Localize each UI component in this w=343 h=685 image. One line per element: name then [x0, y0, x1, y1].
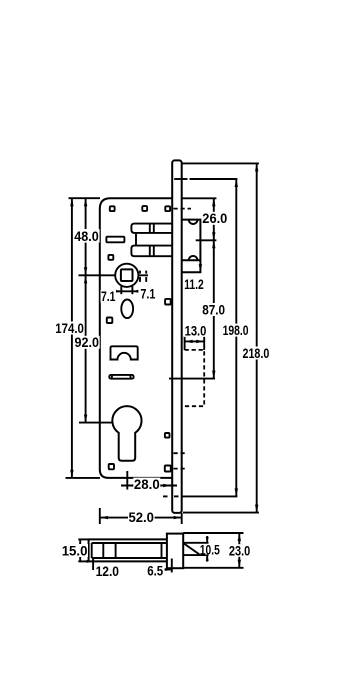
svg-text:87.0: 87.0 — [202, 301, 225, 317]
svg-text:52.0: 52.0 — [128, 509, 154, 525]
svg-text:15.0: 15.0 — [62, 542, 88, 558]
svg-text:7.1: 7.1 — [140, 286, 155, 302]
svg-text:23.0: 23.0 — [229, 543, 251, 559]
svg-text:198.0: 198.0 — [223, 322, 249, 338]
svg-text:26.0: 26.0 — [202, 210, 227, 226]
svg-text:13.0: 13.0 — [185, 322, 207, 338]
svg-text:28.0: 28.0 — [134, 476, 160, 492]
svg-text:7.1: 7.1 — [101, 288, 116, 304]
svg-text:12.0: 12.0 — [96, 563, 120, 579]
svg-text:11.2: 11.2 — [184, 276, 204, 292]
svg-text:218.0: 218.0 — [243, 345, 270, 361]
svg-text:92.0: 92.0 — [75, 334, 100, 350]
svg-text:6.5: 6.5 — [147, 563, 163, 579]
svg-text:48.0: 48.0 — [74, 228, 99, 244]
svg-text:10.5: 10.5 — [200, 541, 220, 557]
